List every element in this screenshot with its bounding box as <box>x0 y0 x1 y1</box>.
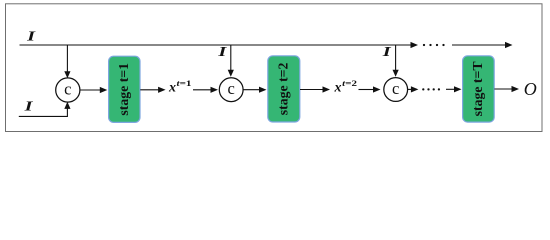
svg-text:I: I <box>381 45 391 60</box>
svg-text:I: I <box>23 100 33 115</box>
svg-text:I: I <box>217 45 227 60</box>
svg-text:c: c <box>64 79 71 98</box>
svg-text:O: O <box>524 79 537 99</box>
svg-text:stage t=2: stage t=2 <box>276 62 291 115</box>
svg-text:x: x <box>168 81 176 96</box>
svg-text:I: I <box>26 30 36 45</box>
svg-text:x: x <box>334 81 342 96</box>
svg-text:stage t=T: stage t=T <box>470 61 485 116</box>
svg-text:t=1: t=1 <box>177 78 192 88</box>
svg-text:c: c <box>392 79 399 98</box>
svg-text:t=2: t=2 <box>342 78 357 88</box>
svg-text:stage t=1: stage t=1 <box>116 63 131 116</box>
svg-text:c: c <box>228 79 235 98</box>
